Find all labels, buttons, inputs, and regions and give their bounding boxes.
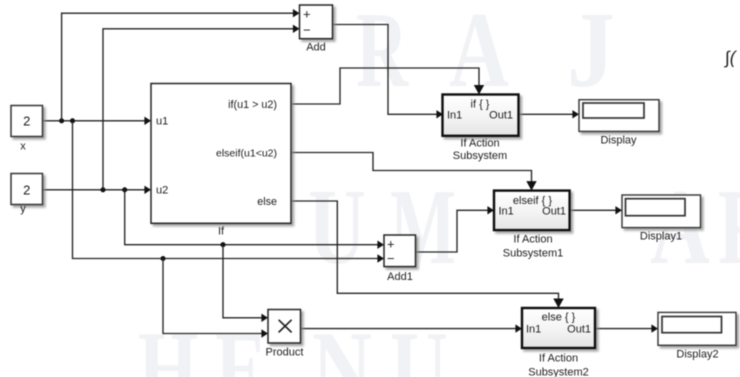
svg-text:if(u1 > u2): if(u1 > u2) [228,99,277,111]
Add block [300,5,333,54]
svg-text:else: else [257,196,277,208]
svg-text:Subsystem: Subsystem [453,150,507,162]
svg-text:R: R [718,168,740,287]
arrowhead into Add1 minus [377,254,384,262]
junction dot C (y wire to Add minus) [100,187,105,192]
svg-text:If Action: If Action [513,234,552,246]
wire W2: constant y output to u2 [43,189,147,191]
junction dot A (x wire to Add plus) [59,118,64,123]
svg-text:In1: In1 [447,109,462,121]
svg-text:U: U [390,310,448,377]
wire W16: Subsystem1 Out1 to Display1 [570,209,617,211]
svg-text:E: E [215,310,267,377]
watermark row 2 KUMAR [308,168,740,287]
svg-text:Product: Product [266,347,304,359]
wire W17: Subsystem2 Out1 to Display2 [595,328,653,330]
junction dot B (x wire to Add1 minus) [70,118,75,123]
arrowhead into Add plus [293,9,300,17]
wire W14: Product output to In1 of If Action Subsystem2 [301,328,518,330]
wire W5: Add output to In1 of If Action Subsystem [333,25,438,115]
svg-text:R: R [356,0,409,110]
watermark row 1 RAJ [356,0,615,110]
Display1 block [622,195,701,243]
junction dot E (to Product input 1) [220,242,225,247]
svg-text:Out1: Out1 [567,324,591,336]
svg-text:y: y [20,203,26,215]
junction dot D (y wire to Add1 plus) [122,187,127,192]
svg-text:If Action: If Action [539,353,578,365]
If Action Subsystem2 (else) [522,308,595,377]
Display block [579,100,659,147]
wire W3: x branch up to Add plus input [62,13,295,121]
arrowhead into u1 [144,117,151,125]
Product block [266,310,304,359]
arrowhead into Display2 [651,324,658,332]
Add1 block [384,235,416,283]
svg-text:Subsystem1: Subsystem1 [503,248,564,260]
arrowhead into subsystem1 In1 [487,206,494,214]
svg-text:u2: u2 [156,184,168,196]
junction dot F (to Product input 2) [160,256,165,261]
arrowhead into subsystem In1 [436,110,443,118]
svg-text:N: N [312,310,372,377]
integral glyph top right [724,48,738,68]
svg-text:2: 2 [23,114,30,129]
arrowhead into Add1 plus [377,241,384,249]
constant block x [11,106,43,153]
svg-text:Subsystem2: Subsystem2 [528,367,589,377]
arrowhead down into action port 1 [526,181,536,191]
svg-text:M: M [390,168,456,287]
arrowhead into subsystem2 In1 [515,324,522,332]
wire W11: branch to Product input 1 [223,245,263,318]
If block [151,84,291,238]
svg-text:u1: u1 [156,115,168,127]
svg-text:else { }: else { } [542,311,576,323]
wire W9: y branch down to Add1 plus input [125,190,379,245]
wire W13: Add1 output to In1 of If Action Subsystem1 [416,210,490,252]
Display2 block [658,312,736,360]
wire W15: Subsystem Out1 to Display [519,113,574,115]
svg-text:elseif(u1<u2): elseif(u1<u2) [216,147,277,159]
wire W12: branch to Product input 2 [163,259,263,334]
watermark row 3 THENU [138,310,448,377]
svg-text:2: 2 [23,183,30,198]
svg-text:Out1: Out1 [542,206,566,218]
svg-text:Out1: Out1 [489,109,513,121]
arrowhead into Add minus [293,25,300,33]
If Action Subsystem1 (elseif) [494,191,570,260]
arrowhead into u2 [144,186,151,194]
svg-text:Display: Display [600,135,637,147]
wire W7: If output elseif to action port of If Action Subsystem1 [291,153,532,186]
svg-text:In1: In1 [526,324,541,336]
svg-text:+: + [303,7,311,22]
svg-text:−: − [303,23,311,38]
wire W10: x branch down to Add1 minus input [73,121,380,259]
arrowhead down into action port [474,85,484,95]
svg-text:∫(: ∫( [724,48,738,68]
svg-text:+: + [387,237,395,252]
svg-text:Add1: Add1 [387,271,413,283]
svg-text:−: − [387,251,395,266]
svg-text:Display2: Display2 [676,349,718,361]
constant block y [11,174,43,216]
arrowhead down into action port 2 [553,299,563,309]
wire W8: If output else to action port of If Action Subsystem2 [291,201,559,303]
svg-text:In1: In1 [499,206,514,218]
wire W1: constant x output to u1 [43,120,147,122]
arrowhead into Display1 [615,206,622,214]
svg-text:J: J [567,0,615,110]
svg-text:if { }: if { } [471,98,490,110]
arrowhead into Product input 1 [261,314,268,322]
arrowhead into Product input 2 [261,329,268,337]
wire W6: If output if(u1>u2) to action port of If Action Subsystem [291,68,479,104]
svg-text:If Action: If Action [460,138,499,150]
If Action Subsystem (if) [443,95,519,162]
svg-text:Add: Add [306,42,326,54]
arrowhead into Display [572,110,579,118]
svg-text:If: If [218,226,225,238]
svg-text:H: H [138,310,198,377]
svg-text:Display1: Display1 [640,231,682,243]
svg-text:x: x [20,141,26,153]
wire W4: y branch up to Add minus input [103,29,295,190]
